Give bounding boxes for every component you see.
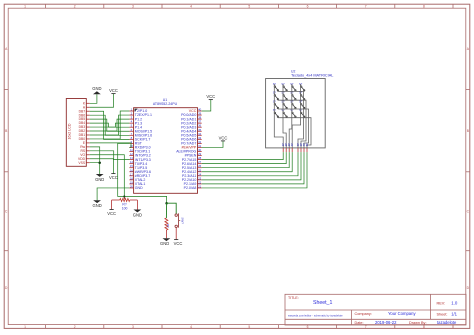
svg-text:Sheet:: Sheet:	[437, 312, 448, 316]
switch key row3 col1	[273, 99, 279, 108]
svg-text:8P: 8P	[305, 143, 309, 147]
switch key row2 col1	[273, 91, 279, 100]
wire DB7 to SCK/P1.7	[90, 111, 130, 139]
svg-text:1.0: 1.0	[451, 301, 458, 306]
switch key row4 col1	[273, 108, 279, 117]
svg-text:20: 20	[130, 184, 134, 188]
switch key row1 col1	[273, 82, 279, 91]
svg-text:AT89S52-24PU: AT89S52-24PU	[153, 102, 178, 106]
switch key row3 col4	[299, 99, 305, 108]
ground top	[92, 86, 101, 94]
ground pot right	[133, 210, 142, 218]
svg-text:VSS: VSS	[78, 161, 85, 165]
svg-text:2: 2	[74, 325, 76, 329]
switch key row4 col2	[281, 108, 287, 117]
svg-text:5: 5	[248, 325, 250, 329]
svg-text:Your Company: Your Company	[388, 311, 416, 316]
wire keypad column 3	[291, 84, 293, 113]
wire DB4 to P1.4	[90, 123, 130, 127]
svg-text:8: 8	[423, 5, 425, 9]
IC U1 AT89S52-24PU	[129, 98, 201, 193]
svg-text:VCC: VCC	[206, 94, 215, 99]
switch SW1 reset button	[167, 203, 185, 239]
wire keypad column 4 tail	[292, 113, 300, 148]
keypad pin 1	[281, 143, 285, 152]
connector J1 16x2 LCD	[66, 99, 89, 167]
switch key row1 col2	[281, 82, 287, 91]
wire RS to INT1/P3.3	[90, 151, 130, 160]
wire keypad row 3	[278, 109, 309, 148]
wire VCC pin40	[202, 100, 211, 111]
svg-text:GND: GND	[92, 86, 101, 91]
keypad U2 Teclado_4x4 MATRICIAL	[266, 69, 334, 148]
power flag VCC below LCD	[109, 174, 118, 180]
keypad pin 2	[284, 143, 288, 152]
wire keypad column 4	[300, 84, 302, 113]
wire K to GND	[90, 94, 97, 103]
svg-text:21: 21	[198, 184, 202, 188]
wire keypad column 1 tail	[274, 113, 283, 148]
wire RST net	[118, 143, 167, 203]
svg-text:easyeda.com/editor - schematic: easyeda.com/editor - schematic by tazade…	[288, 314, 343, 318]
svg-text:R?: R?	[166, 224, 170, 228]
switch key row2 col2	[281, 91, 287, 100]
svg-text:TITLE:: TITLE:	[288, 296, 299, 300]
junction VSS/Rw	[98, 161, 101, 164]
resistor R2 reset pulldown	[165, 203, 170, 238]
svg-text:Sheet_1: Sheet_1	[313, 300, 332, 306]
power flag VCC pot left	[107, 210, 116, 216]
svg-text:16x2 LCD: 16x2 LCD	[68, 123, 72, 139]
wire keypad row 4	[278, 118, 311, 148]
svg-text:7: 7	[365, 5, 367, 9]
power flag VCC EA	[219, 135, 228, 141]
wire DB6 to MISO/P1.6	[90, 115, 130, 135]
svg-text:5: 5	[248, 5, 250, 9]
wire DB5 to MOSI/P1.5	[90, 119, 130, 131]
keypad pin 3	[287, 143, 291, 152]
svg-text:GND: GND	[95, 177, 104, 182]
svg-text:VCC: VCC	[109, 175, 118, 180]
wire EA/VPP to VCC	[202, 141, 223, 148]
svg-text:VCC: VCC	[107, 211, 116, 216]
svg-text:2019-06-22: 2019-06-22	[375, 320, 397, 325]
svg-text:GND: GND	[135, 186, 143, 190]
svg-text:GND: GND	[133, 212, 142, 217]
wire P2.7/A15 to keypad pin 1	[202, 152, 284, 160]
wire P2.4/A12 to keypad pin 4	[202, 152, 293, 172]
wire MCU GND to ground	[97, 188, 129, 200]
svg-text:Drawn By:: Drawn By:	[409, 321, 427, 325]
switch key row4 col4	[299, 108, 305, 117]
wire VSS to GND	[90, 163, 100, 174]
svg-text:Teclado_4x4 MATRICIAL: Teclado_4x4 MATRICIAL	[291, 73, 333, 77]
power flag VCC pin40	[206, 94, 215, 100]
ground reset resistor	[160, 238, 170, 246]
keypad pin 5	[296, 143, 300, 152]
wire Rw to GND net	[90, 147, 100, 163]
keypad pin 4	[290, 143, 294, 152]
keypad pin 8	[305, 143, 309, 152]
power flag VCC top	[109, 88, 118, 94]
title block	[285, 294, 466, 325]
svg-text:4: 4	[190, 5, 192, 9]
svg-text:VCC: VCC	[219, 135, 228, 140]
svg-text:REV:: REV:	[437, 301, 446, 305]
power flag VCC reset switch	[174, 240, 183, 246]
keypad pin 6	[299, 143, 303, 152]
svg-text:GND: GND	[92, 203, 101, 208]
wire keypad row 1	[278, 91, 304, 147]
wire keypad column 3 tail	[289, 113, 292, 148]
keypad pin 7	[302, 143, 306, 152]
wire VO to potentiometer wiper	[90, 155, 125, 197]
wire keypad column 2	[282, 84, 284, 113]
wire keypad column 1	[273, 84, 275, 113]
junction reset divider	[165, 202, 168, 205]
switch key row3 col2	[281, 99, 287, 108]
wire DB1 to T2EX/P1.1	[90, 115, 130, 135]
svg-text:100: 100	[122, 206, 128, 210]
switch key row2 col3	[290, 91, 296, 100]
svg-text:GND: GND	[160, 241, 169, 246]
svg-text:Company:: Company:	[355, 312, 372, 316]
svg-text:6: 6	[307, 5, 309, 9]
ground MCU pin20	[92, 200, 101, 208]
svg-text:P2.0/A8: P2.0/A8	[184, 186, 197, 190]
wire keypad row 2	[278, 100, 306, 148]
wire DB2 to P1.2	[90, 119, 130, 131]
potentiometer R1 100	[112, 196, 138, 210]
svg-text:4P: 4P	[290, 143, 294, 147]
switch key row1 col4	[299, 82, 305, 91]
wire P2.3/A11 to keypad pin 5	[202, 152, 298, 176]
wire VDD to VCC	[90, 159, 114, 174]
junction RST/VO crossing	[123, 195, 125, 197]
svg-text:4: 4	[190, 325, 192, 329]
svg-text:VCC: VCC	[174, 241, 183, 246]
svg-text:3: 3	[132, 325, 134, 329]
switch key row3 col3	[290, 99, 296, 108]
svg-text:Date:: Date:	[355, 321, 364, 325]
svg-text:3: 3	[132, 5, 134, 9]
svg-text:SW?: SW?	[181, 217, 185, 224]
wire A to VCC	[90, 94, 114, 108]
svg-text:VCC: VCC	[109, 88, 118, 93]
wire P2.6/A14 to keypad pin 2	[202, 152, 287, 164]
svg-text:tazadelote: tazadelote	[437, 320, 457, 325]
wire E to RXD/P3.0	[90, 143, 131, 148]
wire P2.2/A10 to keypad pin 6	[202, 152, 301, 180]
wire P2.0/A8 to keypad pin 8	[202, 152, 307, 188]
svg-text:1: 1	[24, 325, 26, 329]
wire keypad column 2 tail	[283, 113, 286, 148]
wire DB0 to T2/P1.0	[90, 111, 130, 139]
wire DB3 to P1.3	[90, 123, 130, 127]
svg-text:1/1: 1/1	[451, 312, 457, 317]
switch key row1 col3	[290, 82, 296, 91]
svg-text:2: 2	[74, 5, 76, 9]
wire P2.1/A9 to keypad pin 7	[202, 152, 304, 184]
svg-text:1: 1	[24, 5, 26, 9]
ground below LCD	[95, 174, 104, 182]
switch key row2 col4	[299, 91, 305, 100]
switch key row4 col3	[290, 108, 296, 117]
wire P2.5/A13 to keypad pin 3	[202, 152, 290, 168]
